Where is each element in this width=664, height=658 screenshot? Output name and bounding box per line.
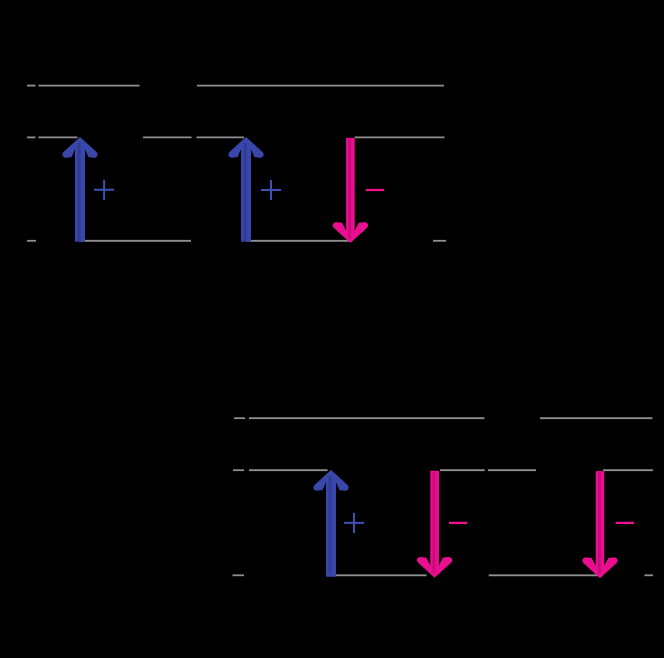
blue up arrow A2: [228, 137, 263, 242]
blue up arrow A1: [62, 137, 97, 242]
level line: diagram2 middle right segment: [355, 136, 445, 138]
level line: bottom row right tick (bottom group): [645, 574, 654, 576]
level line: bottom row right tick: [433, 240, 446, 242]
level line: diagram4 bottom segment: [489, 574, 598, 576]
level line: diagram2 top segment: [197, 85, 444, 87]
level line: diagram3 top segment: [249, 417, 485, 419]
level line: diagram1 top segment: [39, 85, 140, 87]
plus sign P3: [344, 513, 364, 533]
pink down arrow A3: [333, 138, 368, 243]
level line: top row left tick (bottom group): [234, 417, 245, 419]
plus sign P2: [261, 180, 281, 200]
level line: diagram1 middle left segment: [39, 136, 78, 138]
level line: diagram2 middle left segment: [197, 136, 245, 138]
plus sign P1: [94, 180, 114, 200]
level line: diagram1 bottom segment: [79, 240, 191, 242]
level line: bottom row left tick: [27, 240, 36, 242]
minus sign M3: [616, 522, 634, 524]
minus sign M1: [366, 189, 384, 191]
level line: diagram4 top segment: [540, 417, 653, 419]
level line: bottom row left tick (bottom group): [233, 574, 245, 576]
level line: diagram4 middle right segment: [603, 469, 653, 471]
pink down arrow A6: [582, 471, 617, 578]
level line: diagram3 middle left segment: [249, 469, 328, 471]
blue up arrow A4: [313, 470, 348, 577]
minus sign M2: [449, 522, 467, 524]
level line: middle row left tick: [27, 136, 36, 138]
level line: diagram1 middle right segment: [143, 136, 192, 138]
level line: diagram3 middle right segment: [440, 469, 485, 471]
level line: diagram2 bottom segment: [246, 240, 351, 242]
level line: diagram4 middle left segment: [488, 469, 536, 471]
level line: middle row left tick (bottom group): [233, 469, 244, 471]
pink down arrow A5: [417, 471, 452, 578]
level line: diagram3 bottom segment: [332, 574, 427, 576]
level line: top row left tick: [27, 85, 36, 87]
